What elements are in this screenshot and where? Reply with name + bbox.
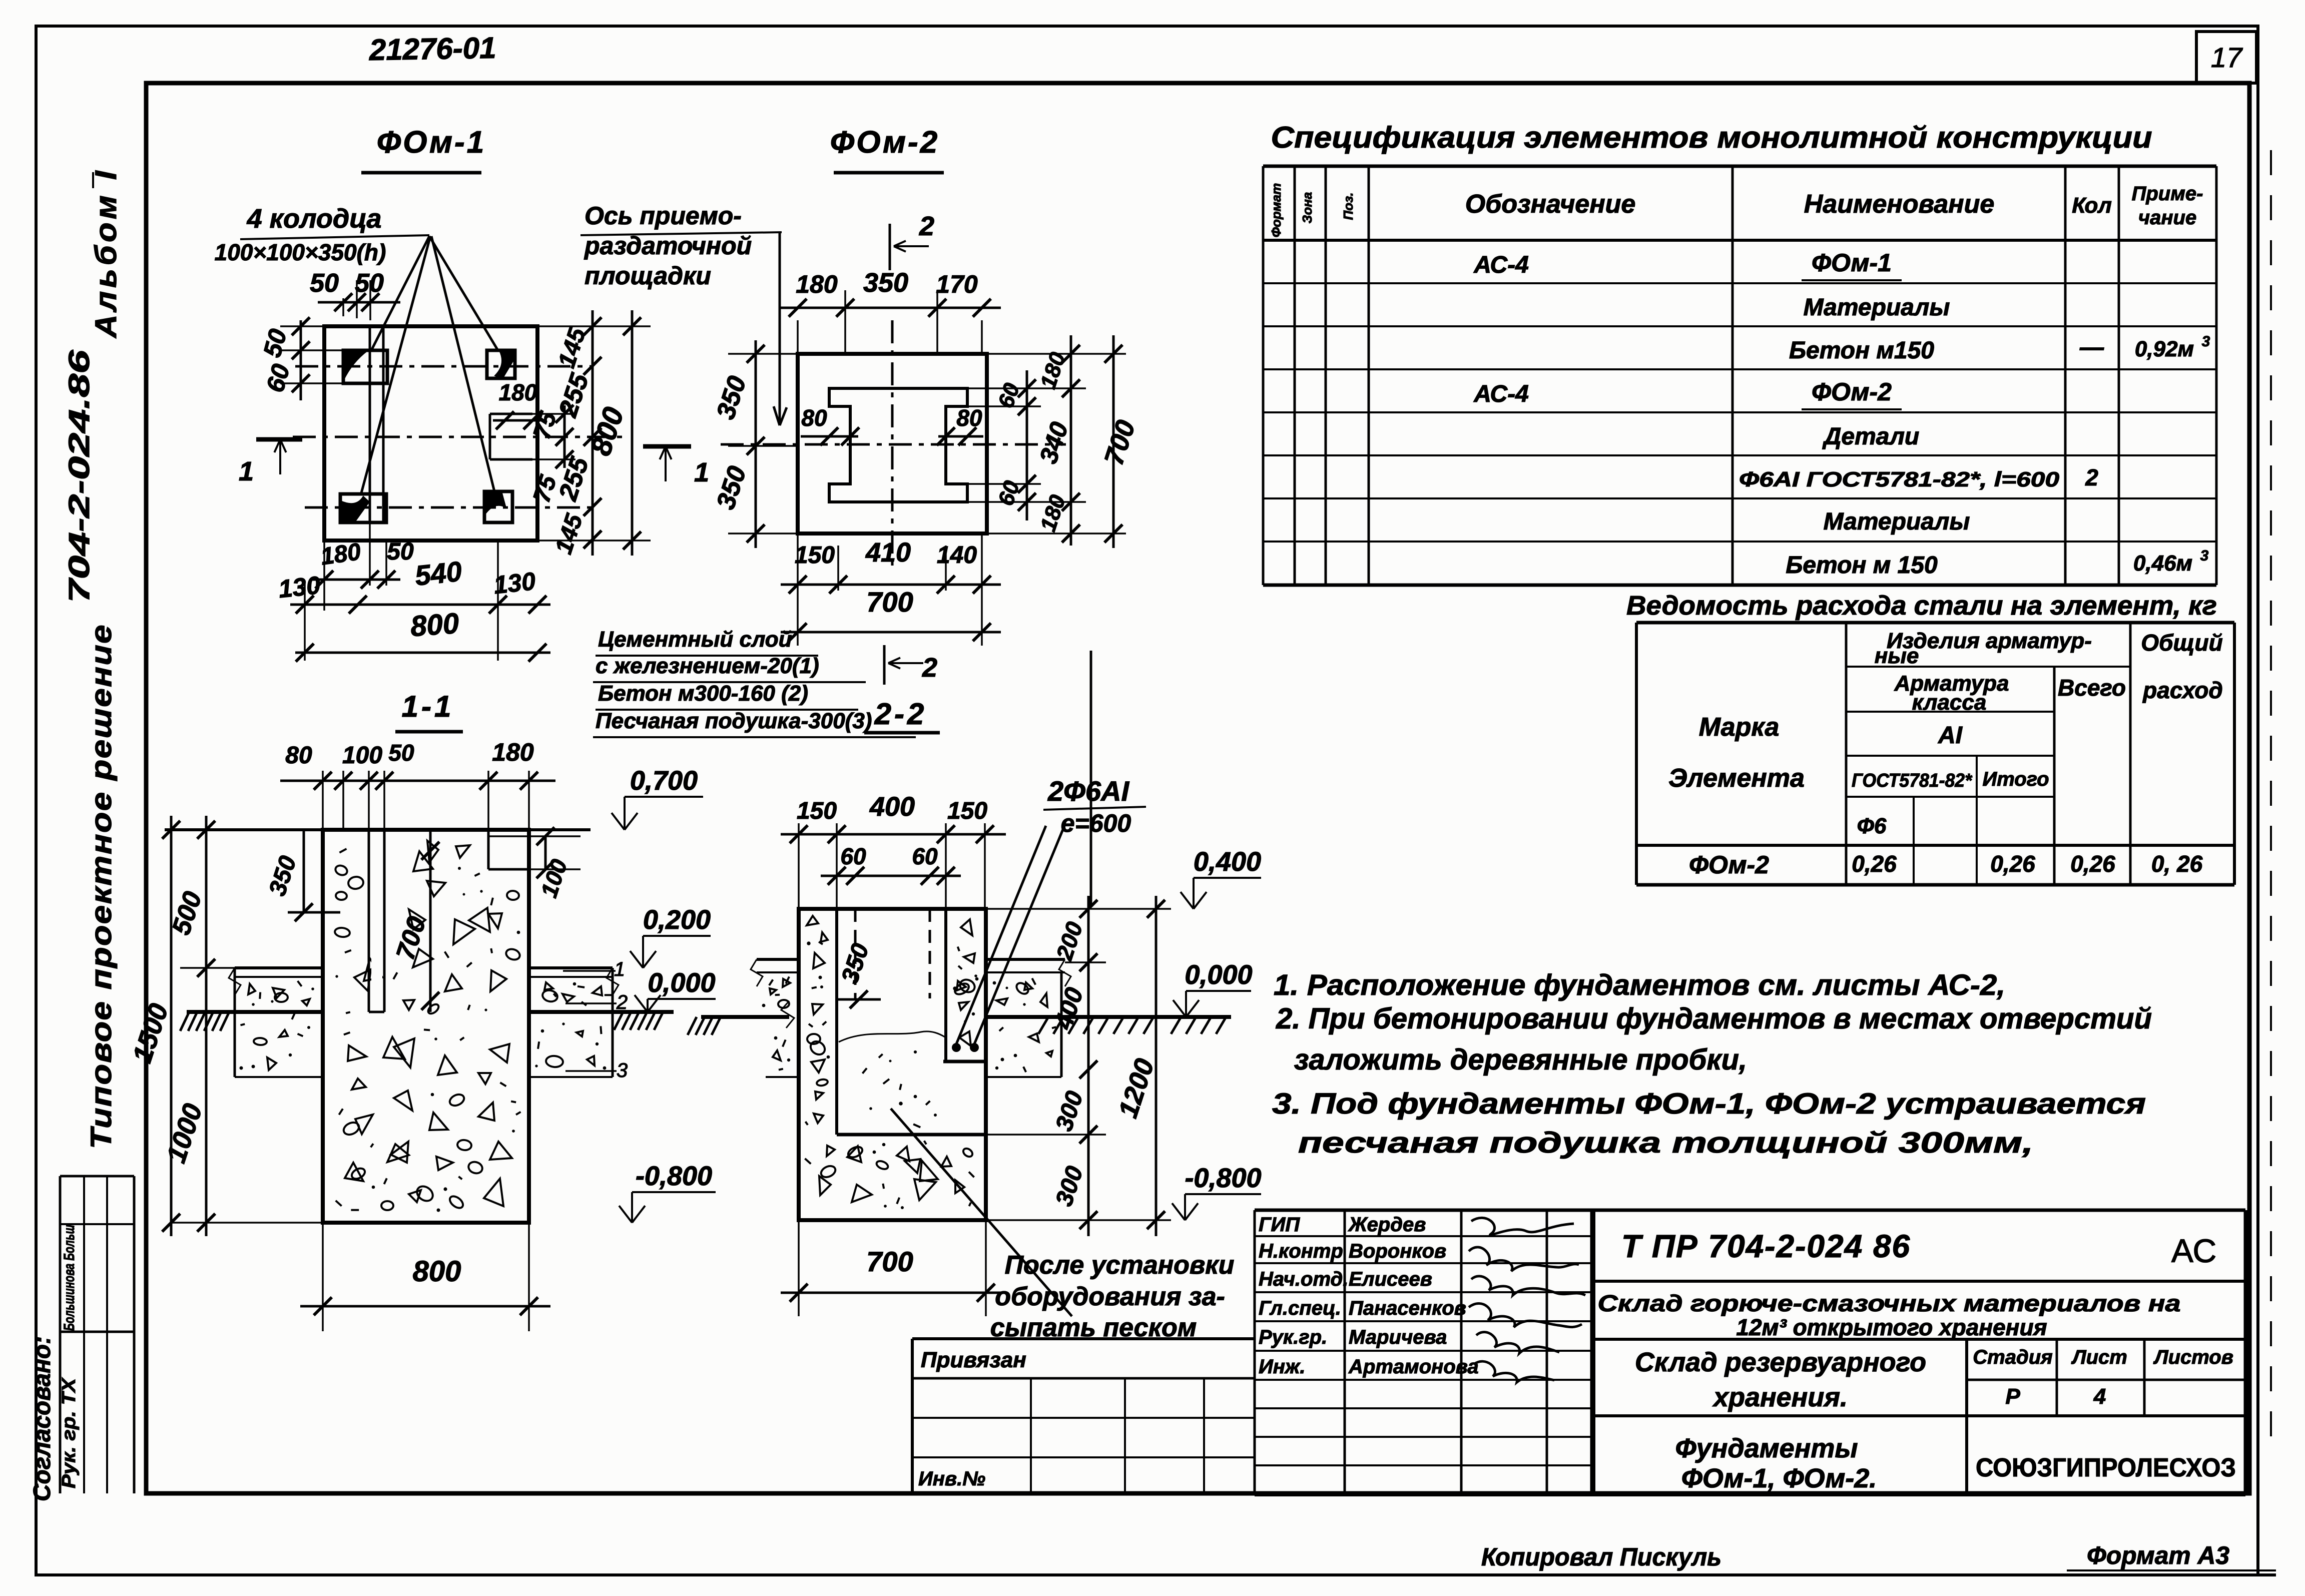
svg-text:0, 26: 0, 26 (2151, 851, 2203, 877)
svg-text:расход: расход (2142, 677, 2223, 703)
svg-text:Формат А3: Формат А3 (2087, 1541, 2229, 1569)
svg-text:50: 50 (310, 269, 339, 298)
svg-text:СОЮЗГИПРОЛЕСХОЗ: СОЮЗГИПРОЛЕСХОЗ (1976, 1453, 2236, 1482)
svg-text:1: 1 (239, 456, 254, 486)
svg-text:АС-4: АС-4 (1473, 381, 1529, 407)
svg-text:Панасенков: Панасенков (1349, 1297, 1466, 1319)
svg-text:3: 3 (2200, 548, 2209, 564)
svg-text:150: 150 (797, 798, 837, 824)
svg-text:0,26: 0,26 (1852, 851, 1897, 877)
svg-text:заложить деревянные пробки,: заложить деревянные пробки, (1294, 1043, 1747, 1076)
svg-text:700: 700 (866, 586, 913, 618)
svg-text:Ведомость расхода стали на эле: Ведомость расхода стали на элемент, кг (1626, 591, 2217, 621)
svg-text:Типовое проектное решение: Типовое проектное решение (85, 624, 118, 1149)
svg-text:60: 60 (840, 843, 866, 869)
svg-text:Поз.: Поз. (1341, 192, 1356, 220)
svg-text:Формат: Формат (1269, 183, 1284, 238)
svg-text:3: 3 (617, 1059, 628, 1082)
svg-text:2Ф6АI: 2Ф6АI (1047, 775, 1129, 807)
svg-text:150: 150 (947, 798, 987, 824)
svg-text:АС: АС (2171, 1232, 2216, 1269)
svg-text:ГОСТ5781-82*: ГОСТ5781-82* (1852, 770, 1973, 791)
svg-text:Бетон м 150: Бетон м 150 (1786, 552, 1938, 579)
svg-text:50: 50 (388, 740, 414, 766)
svg-text:180: 180 (499, 379, 537, 405)
svg-text:площадки: площадки (585, 262, 711, 290)
svg-text:50: 50 (355, 269, 384, 298)
svg-text:После установки: После установки (1005, 1251, 1235, 1280)
svg-text:Бетон м150: Бетон м150 (1789, 337, 1934, 364)
svg-text:-0,800: -0,800 (636, 1161, 712, 1191)
svg-text:50: 50 (387, 539, 414, 565)
svg-text:Материалы: Материалы (1824, 508, 1970, 535)
svg-text:100×100×350(h): 100×100×350(h) (215, 239, 386, 265)
svg-text:0,200: 0,200 (643, 905, 711, 935)
svg-text:Приме-: Приме- (2132, 183, 2203, 205)
svg-text:Ф6АI ГОСТ5781-82*, l=600: Ф6АI ГОСТ5781-82*, l=600 (1739, 467, 2059, 491)
svg-text:Бетон м300-160 (2): Бетон м300-160 (2) (598, 681, 808, 706)
svg-text:оборудования за-: оборудования за- (995, 1282, 1225, 1311)
svg-text:Т ПР 704-2-024 86: Т ПР 704-2-024 86 (1621, 1228, 1911, 1264)
svg-text:ФОм-1: ФОм-1 (377, 125, 486, 160)
svg-text:12м³ открытого хранения: 12м³ открытого хранения (1736, 1314, 2047, 1340)
svg-text:1. Расположение фундаментов см: 1. Расположение фундаментов см. листы АС… (1274, 969, 2005, 1001)
svg-text:ФОм-2: ФОм-2 (1812, 378, 1892, 406)
svg-text:Рук. гр. ТХ: Рук. гр. ТХ (59, 1377, 80, 1488)
svg-text:-0,800: -0,800 (1185, 1163, 1261, 1193)
svg-text:Р: Р (2005, 1384, 2020, 1409)
svg-text:0,92м: 0,92м (2135, 337, 2194, 361)
svg-text:150: 150 (795, 542, 835, 569)
svg-text:Воронков: Воронков (1349, 1240, 1446, 1262)
svg-text:Копировал Пискуль: Копировал Пискуль (1481, 1543, 1721, 1571)
svg-text:60: 60 (912, 843, 938, 869)
svg-text:ФОм-1, ФОм-2.: ФОм-1, ФОм-2. (1681, 1463, 1877, 1493)
svg-text:Спецификация элементов монолит: Спецификация элементов монолитной констр… (1271, 121, 2152, 154)
svg-text:Фундаменты: Фундаменты (1675, 1433, 1858, 1463)
svg-text:Н.контр: Н.контр (1259, 1240, 1343, 1262)
svg-text:Элемента: Элемента (1668, 764, 1805, 793)
svg-text:Артамонова: Артамонова (1348, 1356, 1479, 1378)
svg-text:180: 180 (796, 270, 838, 298)
svg-text:700: 700 (866, 1246, 913, 1277)
svg-text:0,000: 0,000 (648, 968, 715, 998)
svg-text:130: 130 (277, 571, 322, 603)
svg-text:Рук.гр.: Рук.гр. (1259, 1326, 1327, 1348)
svg-text:Общий: Общий (2141, 630, 2222, 656)
svg-text:Материалы: Материалы (1804, 294, 1950, 321)
svg-text:класса: класса (1912, 690, 1987, 715)
svg-text:Ф6: Ф6 (1857, 814, 1887, 838)
svg-text:Маричева: Маричева (1349, 1326, 1447, 1348)
svg-text:Нач.отд.: Нач.отд. (1259, 1268, 1348, 1290)
svg-text:Инж.: Инж. (1259, 1356, 1306, 1378)
svg-text:0,700: 0,700 (630, 766, 698, 796)
svg-text:Склад горюче-смазочных материа: Склад горюче-смазочных материалов на (1598, 1290, 2181, 1316)
svg-text:0,46м: 0,46м (2133, 551, 2192, 576)
svg-text:Цементный слой: Цементный слой (598, 627, 792, 652)
svg-text:180: 180 (319, 539, 362, 571)
svg-text:1: 1 (614, 958, 625, 980)
svg-text:Жердев: Жердев (1348, 1214, 1426, 1236)
svg-text:песчаная подушка толщиной 30: песчаная подушка толщиной 300мм, (1298, 1127, 2033, 1159)
svg-text:17: 17 (2211, 42, 2243, 73)
svg-text:2: 2 (2085, 464, 2098, 490)
svg-text:—: — (2079, 334, 2104, 361)
svg-text:400: 400 (869, 792, 915, 822)
svg-text:Песчаная подушка-300(3): Песчаная подушка-300(3) (596, 709, 872, 733)
svg-text:с железнением-20(1): с железнением-20(1) (596, 654, 819, 678)
svg-text:Инв.№: Инв.№ (918, 1468, 985, 1490)
svg-text:2-2: 2-2 (874, 697, 927, 731)
svg-text:Итого: Итого (1982, 768, 2049, 790)
svg-text:0,26: 0,26 (1990, 851, 2035, 877)
svg-text:800: 800 (413, 1255, 461, 1288)
svg-text:1-1: 1-1 (402, 690, 454, 723)
svg-text:140: 140 (937, 542, 977, 569)
svg-text:Стадия: Стадия (1973, 1346, 2052, 1368)
svg-text:Елисеев: Елисеев (1349, 1268, 1432, 1290)
svg-text:4 колодца: 4 колодца (247, 204, 382, 234)
svg-text:Лист: Лист (2071, 1346, 2127, 1368)
svg-text:100: 100 (342, 742, 382, 769)
svg-text:ФОм-2: ФОм-2 (1689, 851, 1769, 879)
svg-text:раздаточной: раздаточной (584, 232, 752, 260)
svg-text:Согласовано:: Согласовано: (29, 1336, 56, 1501)
svg-text:410: 410 (865, 538, 911, 568)
svg-text:4: 4 (2093, 1384, 2106, 1409)
svg-text:0,000: 0,000 (1185, 960, 1252, 990)
svg-text:Альбом I: Альбом I (89, 168, 123, 339)
svg-text:0,400: 0,400 (1194, 847, 1261, 877)
svg-text:2: 2 (922, 653, 937, 683)
svg-text:Большинова Больш: Большинова Больш (61, 1225, 78, 1331)
svg-text:0,26: 0,26 (2070, 851, 2115, 877)
svg-text:хранения.: хранения. (1712, 1382, 1848, 1412)
svg-text:800: 800 (409, 607, 460, 643)
svg-text:1: 1 (694, 457, 709, 487)
svg-text:180: 180 (492, 738, 534, 766)
svg-text:ФОм-2: ФОм-2 (830, 125, 939, 160)
svg-text:Листов: Листов (2153, 1346, 2233, 1368)
svg-text:Привязан: Привязан (921, 1348, 1026, 1372)
svg-text:Кол: Кол (2072, 193, 2112, 218)
svg-text:3. Под фундаменты ФОм-1, ФОм-2: 3. Под фундаменты ФОм-1, ФОм-2 устраивае… (1272, 1088, 2146, 1120)
svg-text:ные: ные (1875, 644, 1919, 668)
svg-text:3: 3 (2202, 333, 2210, 350)
svg-text:Зона: Зона (1300, 192, 1315, 224)
svg-text:Наименование: Наименование (1804, 190, 1995, 219)
svg-text:704-2-024.86: 704-2-024.86 (63, 349, 96, 603)
svg-text:ГИП: ГИП (1259, 1214, 1300, 1236)
svg-text:Склад резервуарного: Склад резервуарного (1635, 1347, 1926, 1377)
svg-text:21276-01: 21276-01 (368, 31, 496, 67)
svg-text:2. При бетонировании фундамент: 2. При бетонировании фундаментов в места… (1276, 1002, 2152, 1035)
svg-text:2: 2 (616, 991, 628, 1013)
svg-text:АI: АI (1938, 722, 1963, 749)
svg-text:Обозначение: Обозначение (1465, 190, 1636, 219)
svg-text:540: 540 (413, 555, 463, 591)
svg-text:ФОм-1: ФОм-1 (1812, 249, 1892, 277)
svg-text:Детали: Детали (1822, 423, 1920, 450)
svg-text:80: 80 (801, 405, 827, 431)
svg-text:Всего: Всего (2058, 675, 2126, 701)
svg-text:80: 80 (956, 405, 982, 431)
svg-text:80: 80 (285, 742, 312, 769)
svg-text:Гл.спец.: Гл.спец. (1259, 1297, 1341, 1319)
svg-text:АС-4: АС-4 (1473, 252, 1529, 278)
svg-text:чание: чание (2138, 207, 2196, 229)
svg-text:130: 130 (492, 567, 537, 599)
svg-text:e=600: e=600 (1061, 809, 1131, 837)
svg-text:Марка: Марка (1699, 713, 1780, 742)
svg-text:Ось приемо-: Ось приемо- (585, 202, 742, 230)
svg-text:2: 2 (919, 211, 934, 241)
svg-text:170: 170 (936, 270, 978, 298)
svg-text:350: 350 (863, 268, 908, 298)
